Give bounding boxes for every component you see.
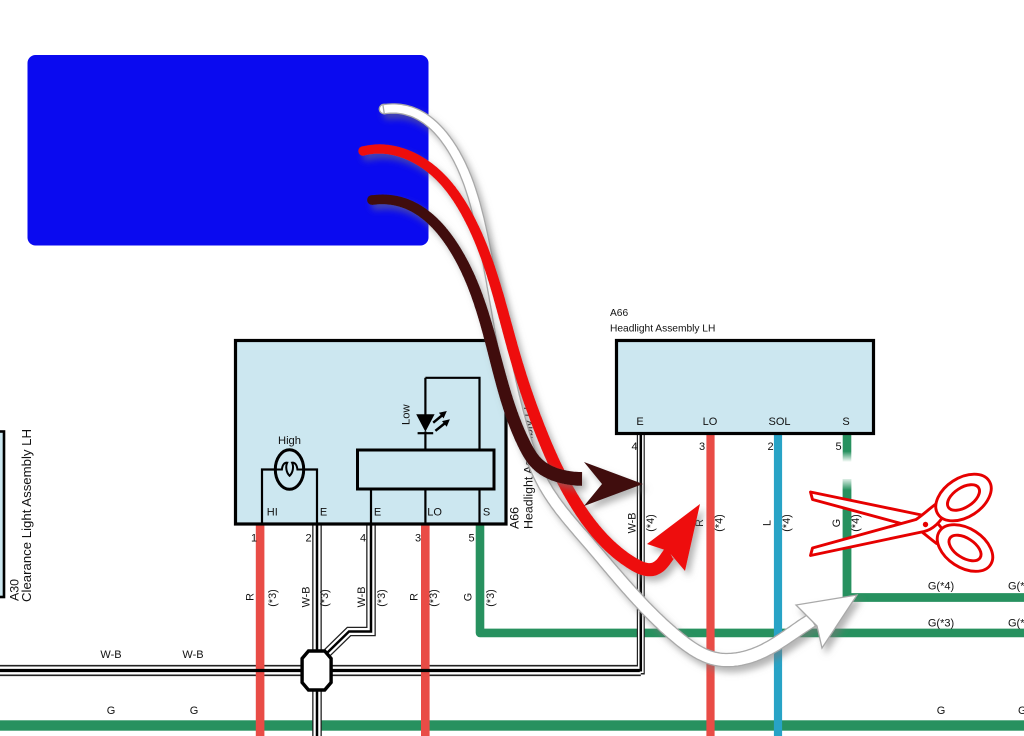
svg-text:R: R <box>245 593 257 601</box>
wire W-B horizontal black stripe <box>0 669 640 672</box>
svg-text:G: G <box>107 705 116 717</box>
wire R pin3 left <box>421 524 430 736</box>
LED emission arrows <box>433 416 444 431</box>
svg-text:(*3): (*3) <box>267 589 279 606</box>
wire W-B pin2 vertical <box>312 524 322 736</box>
svg-text:2: 2 <box>305 533 311 545</box>
svg-text:W-B: W-B <box>627 513 639 534</box>
svg-text:G(*4): G(*4) <box>928 581 954 593</box>
svg-text:E: E <box>636 416 643 428</box>
wire W-B pin4 diagonal <box>328 524 372 653</box>
terminal labels left box <box>267 507 490 519</box>
wire G pin5 right upper (cut) <box>843 434 852 462</box>
svg-text:G: G <box>831 519 843 527</box>
svg-text:5: 5 <box>835 441 841 453</box>
LED Low wiring <box>418 378 480 450</box>
svg-text:5: 5 <box>468 533 474 545</box>
junction octagon <box>302 651 331 690</box>
svg-text:E: E <box>374 507 381 519</box>
svg-text:G(*3): G(*3) <box>928 618 954 630</box>
annotation arrow dark red <box>367 195 643 507</box>
svg-text:A66: A66 <box>610 308 628 319</box>
svg-text:S: S <box>842 416 849 428</box>
bulb High <box>275 450 303 490</box>
svg-text:4: 4 <box>631 441 637 453</box>
svg-text:(*3): (*3) <box>376 589 388 606</box>
connector A30 Clearance Light Assembly LH (partial box) <box>0 432 4 598</box>
svg-text:LO: LO <box>703 416 718 428</box>
svg-text:S: S <box>483 507 490 519</box>
pin numbers right box <box>631 441 841 453</box>
svg-text:(*3): (*3) <box>428 589 440 606</box>
svg-text:1: 1 <box>251 533 257 545</box>
svg-text:3: 3 <box>699 441 705 453</box>
svg-text:G: G <box>937 705 946 717</box>
ballast box <box>358 450 495 489</box>
svg-text:Headlight Assembly LH: Headlight Assembly LH <box>610 324 715 335</box>
svg-text:L: L <box>762 520 774 526</box>
svg-text:High: High <box>278 435 301 447</box>
svg-text:R: R <box>409 593 421 601</box>
annotation arrow red <box>358 144 700 576</box>
svg-text:(*3): (*3) <box>319 589 331 606</box>
bulb High filament <box>276 463 304 476</box>
redaction box (blue) <box>28 55 429 246</box>
svg-text:(*4): (*4) <box>850 514 862 531</box>
svg-text:E: E <box>320 507 327 519</box>
svg-text:A66: A66 <box>508 507 522 529</box>
svg-text:(*3): (*3) <box>485 589 497 606</box>
svg-text:(*4): (*4) <box>645 514 657 531</box>
wire G(*4) horizontal <box>847 479 1024 598</box>
svg-text:(*4): (*4) <box>714 514 726 531</box>
connector A66 Headlight Assembly LH (right box) <box>617 341 874 434</box>
svg-text:HI: HI <box>267 507 278 519</box>
wire R pin1 <box>256 524 265 736</box>
wire label R (*3) pin1 <box>245 513 863 608</box>
svg-text:W-B: W-B <box>100 649 121 661</box>
svg-text:G: G <box>463 593 475 601</box>
svg-text:Clearance Light Assembly LH: Clearance Light Assembly LH <box>19 429 34 602</box>
wire G(*3) horizontal <box>480 524 1024 633</box>
svg-text:W-B: W-B <box>301 587 313 608</box>
wire L pin2 right (SOL) <box>774 434 782 736</box>
svg-text:SOL: SOL <box>768 416 790 428</box>
svg-text:(*4): (*4) <box>781 514 793 531</box>
terminal labels right box <box>636 416 849 428</box>
svg-text:W-B: W-B <box>356 587 368 608</box>
svg-text:G: G <box>190 705 199 717</box>
bulb High wiring <box>262 470 317 525</box>
annotation arrow white <box>379 104 857 667</box>
svg-text:G: G <box>1018 705 1024 717</box>
wire G bottom horizontal <box>0 720 1024 730</box>
svg-text:3: 3 <box>415 533 421 545</box>
scissors (cut annotation) <box>811 465 1002 581</box>
svg-text:G(*4): G(*4) <box>1008 581 1024 593</box>
svg-text:W-B: W-B <box>182 649 203 661</box>
LED Low triangle <box>416 414 434 432</box>
svg-text:4: 4 <box>360 533 366 545</box>
svg-text:2: 2 <box>767 441 773 453</box>
wire W-B horizontal casing (to A66 pin 4) <box>0 434 641 675</box>
svg-text:LO: LO <box>427 507 442 519</box>
pin numbers left box <box>251 533 475 545</box>
svg-text:G(*3): G(*3) <box>1008 618 1024 630</box>
ballast output wires <box>371 489 480 524</box>
wire R pin3 right (LO) <box>706 434 714 736</box>
component box headlight unit (left) <box>236 341 507 525</box>
svg-text:Low: Low <box>401 404 413 425</box>
